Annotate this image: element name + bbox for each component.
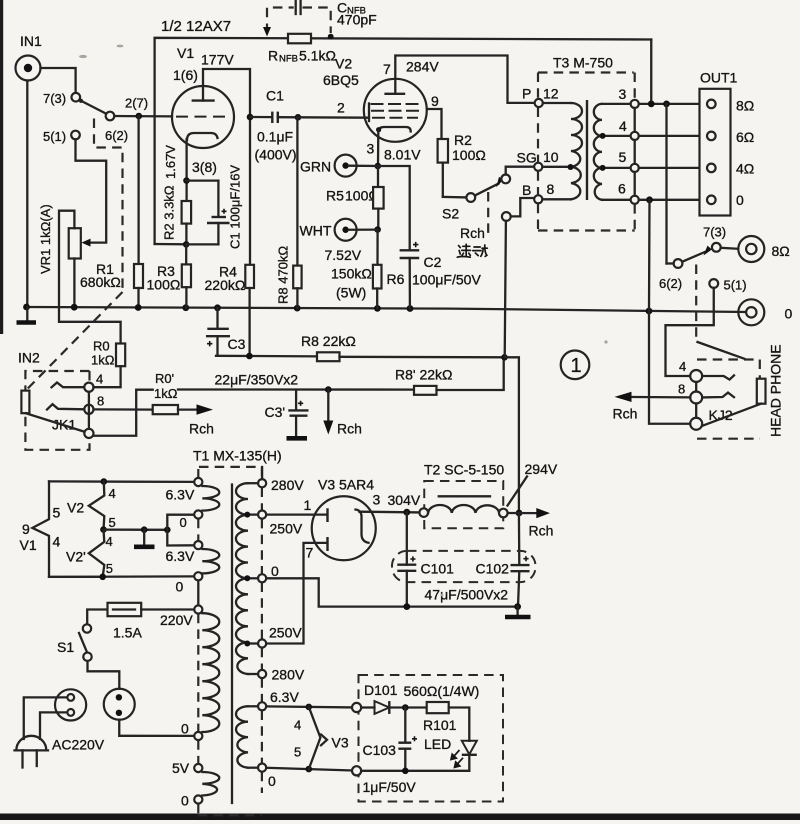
resistor R2 100 (screen) xyxy=(438,132,486,197)
junction R8 ground xyxy=(294,305,301,312)
V1 grid (dashed) xyxy=(176,116,228,118)
jack KJ2 pin 4 xyxy=(679,359,702,382)
svg-text:6.3V: 6.3V xyxy=(270,689,299,705)
svg-text:V2: V2 xyxy=(67,500,84,516)
V2 cathode xyxy=(376,127,411,166)
T1 left winding 5V xyxy=(202,772,219,796)
Rch arrow (R0' output) xyxy=(189,404,214,436)
LED xyxy=(424,736,477,771)
JK1 body contact xyxy=(21,391,29,414)
svg-text:470pF: 470pF xyxy=(337,12,377,28)
svg-text:R8' 22kΩ: R8' 22kΩ xyxy=(395,367,453,383)
svg-text:C3': C3' xyxy=(265,404,286,420)
wire cathode to C2 xyxy=(378,166,410,250)
svg-text:3: 3 xyxy=(373,492,381,508)
headphone dashed box xyxy=(697,360,760,439)
svg-text:1/2 12AX7: 1/2 12AX7 xyxy=(161,18,231,35)
svg-text:V2: V2 xyxy=(335,56,352,72)
node C101 tap xyxy=(403,509,410,516)
svg-text:0.1μF: 0.1μF xyxy=(257,129,293,145)
wire 0 tap down to bus xyxy=(648,200,651,311)
capacitor C3' xyxy=(265,390,309,437)
wire 8ohm down to headphone switch xyxy=(665,104,667,264)
junction R3 ground xyxy=(182,304,189,311)
svg-text:R8 470kΩ: R8 470kΩ xyxy=(276,246,291,304)
svg-text:Rch: Rch xyxy=(189,421,214,437)
svg-text:C3: C3 xyxy=(228,336,246,352)
wire tap3 to OUT1 8ohm xyxy=(639,103,707,105)
switch contact 6(2) xyxy=(105,112,128,143)
potentiometer VR1 1k(A) xyxy=(38,204,81,274)
heater bus bottom xyxy=(49,575,194,578)
diode D101 xyxy=(361,682,427,714)
svg-text:R0: R0 xyxy=(93,339,110,354)
svg-text:9: 9 xyxy=(431,93,439,109)
T1 left terminals xyxy=(194,478,202,804)
svg-text:280V: 280V xyxy=(271,477,304,493)
svg-text:6.3V: 6.3V xyxy=(166,487,195,503)
V3 plate pin 1 xyxy=(266,497,327,522)
wire centre tap to T1 0 bracket xyxy=(104,528,168,531)
JK1 pin 4 xyxy=(84,372,103,392)
T1 right edge dashed segments xyxy=(261,467,263,793)
junction R1 ground xyxy=(135,304,142,311)
resistor RNFB 5.1k xyxy=(268,34,336,65)
svg-text:V3 5AR4: V3 5AR4 xyxy=(318,477,374,493)
wire tap4 to OUT1 6ohm xyxy=(639,135,707,137)
svg-text:HEAD PHONE: HEAD PHONE xyxy=(768,344,784,437)
LED box terminal top xyxy=(352,703,361,712)
capacitor C1 0.1uF coupling xyxy=(250,88,298,163)
wire bus to KJ2 sleeve xyxy=(649,311,690,424)
node C103 tap xyxy=(402,704,409,711)
svg-text:8Ω: 8Ω xyxy=(772,243,790,259)
triode V1 (1/2 12AX7) xyxy=(172,45,234,148)
svg-text:250V: 250V xyxy=(270,521,303,537)
T1 left winding 6.3V a xyxy=(202,486,219,511)
svg-text:S1: S1 xyxy=(57,639,74,655)
fuse 1.5A xyxy=(87,603,194,641)
HV centre tap 0 wire xyxy=(266,578,517,606)
svg-text:304V: 304V xyxy=(388,492,421,508)
resistor R5 100 xyxy=(326,166,384,230)
S2 linkage dashed xyxy=(487,192,489,238)
capacitor C101 xyxy=(397,512,416,606)
JK1 pin connecting stem xyxy=(88,392,90,429)
svg-text:5: 5 xyxy=(106,561,113,576)
svg-text:22μF/350Vx2: 22μF/350Vx2 xyxy=(215,372,299,388)
mains outlet socket xyxy=(104,689,135,720)
svg-text:C2: C2 xyxy=(424,254,442,270)
resistor R8 22k xyxy=(301,333,505,361)
wire VR1 top to R0 xyxy=(59,211,121,344)
T1 HV winding upper xyxy=(236,483,258,578)
T1 right labels xyxy=(268,477,305,789)
svg-text:5: 5 xyxy=(619,149,627,165)
node V3 heater bottom xyxy=(306,766,313,773)
switch S2 xyxy=(442,167,534,358)
headphone linkage dashed xyxy=(695,265,697,342)
heater bus top 6.3V xyxy=(49,480,194,483)
headphone resistor xyxy=(757,379,766,404)
svg-text:294V: 294V xyxy=(525,461,558,477)
svg-text:NFB: NFB xyxy=(279,54,298,65)
Rch arrow (B+) xyxy=(529,508,554,539)
wire node to R3 xyxy=(185,244,187,264)
svg-text:47μF/500Vx2: 47μF/500Vx2 xyxy=(425,587,509,603)
capacitor CNFB 470pF xyxy=(263,0,377,39)
label 150k (5W) xyxy=(331,266,372,301)
svg-text:0: 0 xyxy=(736,192,744,208)
headphone switch 5(1) xyxy=(709,278,746,293)
svg-text:4: 4 xyxy=(96,372,103,387)
wire V2 pin9 to R2 xyxy=(427,109,442,139)
AC plug symbol xyxy=(15,736,49,768)
ground symbol heater xyxy=(134,530,155,547)
node 0 line xyxy=(646,196,653,203)
jack KJ2 pin 8 xyxy=(678,382,702,404)
svg-text:4: 4 xyxy=(109,486,116,501)
wire feedback to cathode node xyxy=(155,243,186,246)
jack JK1 dashed outline xyxy=(25,371,89,450)
wire T1 6.3V to LED box xyxy=(266,706,352,707)
resistor R0' 1k xyxy=(94,371,199,414)
jack KJ2 lever diagonal xyxy=(698,342,745,359)
wire tap5 to OUT1 4ohm xyxy=(639,167,707,169)
svg-text:7: 7 xyxy=(306,545,314,561)
svg-text:5: 5 xyxy=(109,515,116,530)
JK1 sleeve diagonal xyxy=(26,413,85,432)
T1 right terminals xyxy=(258,479,266,772)
scan page border bottom xyxy=(0,814,800,821)
svg-text:100μF/50V: 100μF/50V xyxy=(412,272,481,288)
wire IN1 to switch 7(3) xyxy=(41,68,76,93)
svg-text:4: 4 xyxy=(106,534,113,549)
label 294V with leader xyxy=(508,461,558,506)
choke T2 SC-5-150 xyxy=(419,462,507,529)
svg-text:R2: R2 xyxy=(454,132,472,148)
T3 secondary winding xyxy=(594,104,631,200)
ground symbol C3' xyxy=(287,436,308,441)
svg-text:4Ω: 4Ω xyxy=(736,161,754,177)
svg-text:4: 4 xyxy=(294,718,301,733)
svg-text:T2 SC-5-150: T2 SC-5-150 xyxy=(424,462,504,478)
V1 cathode xyxy=(187,133,218,201)
T1 left labels xyxy=(160,487,195,809)
ground symbol (main bus) xyxy=(17,307,37,323)
junction IN1 ground xyxy=(23,304,30,311)
svg-text:6(2): 6(2) xyxy=(105,128,128,143)
labels C101 C102 xyxy=(421,561,510,577)
svg-text:680kΩ: 680kΩ xyxy=(80,274,121,290)
T1 HV winding lower xyxy=(236,575,258,674)
T3 terminal SG 10 xyxy=(517,149,559,171)
circled figure 1 xyxy=(561,351,590,380)
svg-text:R: R xyxy=(268,48,278,64)
svg-text:IN1: IN1 xyxy=(20,33,42,49)
JK1 contact lever 4 xyxy=(52,383,85,388)
svg-text:1μF/50V: 1μF/50V xyxy=(363,779,417,795)
node R8/R8' junction xyxy=(501,354,508,361)
svg-text:6.3V: 6.3V xyxy=(166,548,195,564)
svg-text:220V: 220V xyxy=(160,612,193,628)
T3 dashed box xyxy=(538,73,635,231)
wire junction to B+ node xyxy=(505,357,519,513)
KJ2 contact 8 xyxy=(702,393,734,398)
Rch arrow (to right channel, down) xyxy=(323,390,362,437)
svg-text:7: 7 xyxy=(383,61,391,77)
svg-text:1.5A: 1.5A xyxy=(113,625,142,641)
V2 plate xyxy=(384,56,534,103)
svg-text:S2: S2 xyxy=(442,206,459,222)
label pin 3 and 304V xyxy=(373,492,421,509)
svg-text:V1: V1 xyxy=(177,45,194,61)
resistor R8 470k xyxy=(276,117,302,308)
svg-text:150kΩ: 150kΩ xyxy=(331,266,372,282)
resistor R6 xyxy=(373,230,405,309)
svg-text:2(7): 2(7) xyxy=(125,96,148,111)
svg-text:8: 8 xyxy=(547,181,555,197)
switch contact 5(1) xyxy=(43,129,80,144)
resistor R101 560 xyxy=(404,683,480,741)
wire R8' line xyxy=(178,388,414,390)
label linked (Chinese) xyxy=(457,244,487,257)
svg-text:Rch: Rch xyxy=(460,225,485,241)
svg-text:560Ω(1/4W): 560Ω(1/4W) xyxy=(404,683,480,699)
T1 dashed box bottom xyxy=(198,814,262,816)
svg-text:8: 8 xyxy=(678,382,685,397)
LED indicator dashed box xyxy=(359,675,504,802)
V3 plate pin 7 xyxy=(266,537,327,644)
C101/C102 dashed rounded box xyxy=(392,551,536,582)
svg-text:5.1kΩ: 5.1kΩ xyxy=(299,48,336,64)
node R4 bottom xyxy=(246,353,253,360)
node ground tap xyxy=(141,526,148,533)
node V1 cathode xyxy=(183,177,190,184)
feedback wire (top line) xyxy=(155,38,652,244)
node plate of V1 xyxy=(247,114,254,121)
svg-text:C1 100μF/16V: C1 100μF/16V xyxy=(228,165,243,249)
svg-text:100Ω: 100Ω xyxy=(147,277,181,293)
wire plug lower xyxy=(40,712,67,739)
svg-text:R8 22kΩ: R8 22kΩ xyxy=(301,333,356,349)
wire B+ node down through C102 xyxy=(518,513,521,565)
ganged-switch dashed linkage xyxy=(26,119,122,391)
LED box terminal bottom xyxy=(352,766,361,775)
wire JK1 sleeve to R8' line xyxy=(94,390,153,436)
svg-text:8Ω: 8Ω xyxy=(736,98,754,114)
svg-text:Rch: Rch xyxy=(337,421,362,437)
svg-text:9: 9 xyxy=(22,521,30,537)
Rch arrow (headphone) xyxy=(613,392,691,422)
svg-text:5: 5 xyxy=(294,745,301,760)
capacitor C103 xyxy=(363,708,418,771)
test jack GRN xyxy=(300,155,378,177)
scan page border left xyxy=(0,0,3,334)
svg-text:(5W): (5W) xyxy=(336,285,366,301)
svg-text:0: 0 xyxy=(785,306,793,322)
node Rch tap xyxy=(325,386,332,393)
ground symbol B supply xyxy=(505,607,531,617)
capacitor C1 100uF/16V (cathode bypass) xyxy=(186,165,242,249)
wire VR1 bottom to ground bus xyxy=(73,259,75,308)
headphone switch lever xyxy=(682,246,712,262)
svg-text:LED: LED xyxy=(424,736,451,752)
jack KJ2 sleeve xyxy=(690,418,702,430)
wire feedback down to 8ohm tap xyxy=(650,40,652,104)
svg-text:6(2): 6(2) xyxy=(659,276,682,291)
junction R6 ground xyxy=(374,305,381,312)
svg-text:5: 5 xyxy=(53,505,61,521)
T1 6.3V winding (V3) xyxy=(236,706,258,767)
svg-text:6: 6 xyxy=(618,181,626,197)
svg-text:12: 12 xyxy=(543,86,559,102)
T1 left edge dashed segments xyxy=(197,469,199,815)
svg-text:10: 10 xyxy=(543,149,559,165)
svg-text:6Ω: 6Ω xyxy=(736,129,754,145)
JK1 sleeve pin xyxy=(84,429,93,438)
T1 left winding 220V xyxy=(202,613,219,732)
mains plug connector xyxy=(55,689,86,720)
wire 5(1) to KJ2 pin 4 xyxy=(666,288,714,376)
T1 0-terminal bracket xyxy=(167,515,194,546)
scan speckles xyxy=(79,45,608,597)
resistor R1 680k xyxy=(80,116,143,308)
svg-text:SG: SG xyxy=(517,150,537,166)
svg-text:R101: R101 xyxy=(423,717,457,733)
svg-text:T3 M-750: T3 M-750 xyxy=(553,55,613,71)
svg-text:7.52V: 7.52V xyxy=(325,247,362,263)
svg-text:2: 2 xyxy=(337,100,345,116)
wire IN1 down to bus xyxy=(26,81,28,308)
KJ2 contact 4 xyxy=(702,375,734,379)
svg-text:100Ω: 100Ω xyxy=(452,147,486,163)
node heater centre tap xyxy=(100,526,107,533)
V2 grids (dashed) xyxy=(369,104,419,122)
heater V2' xyxy=(66,530,113,581)
V1 plate xyxy=(192,69,250,117)
node V2 cathode xyxy=(375,163,382,170)
phone jack 0 xyxy=(738,299,792,325)
switch lever S (input select) xyxy=(79,99,106,114)
resistor R8' 22k xyxy=(395,357,504,395)
svg-text:177V: 177V xyxy=(201,52,234,68)
wire tap6 to OUT1 0 xyxy=(639,199,707,201)
rectifier V3 5AR4 xyxy=(312,477,376,561)
capacitor C102 xyxy=(511,556,530,607)
junction C2 ground xyxy=(407,305,414,312)
wire plug upper xyxy=(24,697,68,739)
node B+ choke output xyxy=(516,510,523,517)
svg-text:0: 0 xyxy=(176,579,184,595)
svg-text:Rch: Rch xyxy=(529,523,554,539)
V3 filament xyxy=(356,510,369,543)
resistor R3 100 xyxy=(147,263,192,308)
headphone switch 6(2) xyxy=(659,259,682,291)
svg-text:AC220V: AC220V xyxy=(52,737,105,753)
svg-text:C101: C101 xyxy=(421,561,455,577)
svg-text:1: 1 xyxy=(304,497,312,513)
svg-text:3: 3 xyxy=(367,141,375,157)
wire choke to node xyxy=(508,512,537,514)
svg-text:7(3): 7(3) xyxy=(43,91,66,106)
T3 secondary tap circles 3,4,5,6 xyxy=(618,86,639,204)
junction T3 secondary 0 to bus xyxy=(646,308,653,315)
svg-text:4: 4 xyxy=(679,359,686,374)
svg-text:0: 0 xyxy=(180,515,187,530)
svg-text:T1 MX-135(H): T1 MX-135(H) xyxy=(193,448,282,464)
svg-text:1kΩ: 1kΩ xyxy=(154,386,178,401)
svg-text:OUT1: OUT1 xyxy=(700,70,738,86)
svg-text:IN2: IN2 xyxy=(18,350,40,366)
svg-text:6BQ5: 6BQ5 xyxy=(323,72,359,88)
resistor R2 3.3k xyxy=(162,185,192,244)
svg-text:280V: 280V xyxy=(272,667,305,683)
heater bracket V1 pin9 xyxy=(32,481,102,577)
svg-text:0: 0 xyxy=(268,773,276,789)
T3 core xyxy=(586,100,588,200)
svg-text:8.01V: 8.01V xyxy=(384,147,421,163)
input jack IN1 xyxy=(16,33,43,81)
svg-text:C102: C102 xyxy=(476,561,510,577)
svg-text:7(3): 7(3) xyxy=(703,225,726,240)
headphone switch 7(3) xyxy=(703,225,738,252)
terminal strip OUT1 xyxy=(700,70,738,216)
OUT1 labels xyxy=(736,98,754,209)
svg-text:4: 4 xyxy=(619,118,627,134)
LED box bottom wire xyxy=(361,770,469,772)
capacitor C2 100uF/50V xyxy=(400,242,482,309)
svg-text:1.67V: 1.67V xyxy=(163,145,178,179)
svg-text:D101: D101 xyxy=(364,682,398,698)
KJ2 stem xyxy=(695,382,697,418)
svg-text:1: 1 xyxy=(571,355,582,377)
svg-text:GRN: GRN xyxy=(300,159,331,175)
JK1 pin 8 xyxy=(84,394,104,414)
node C101 ground xyxy=(403,603,410,610)
T1 core xyxy=(231,485,233,804)
svg-text:B: B xyxy=(522,182,531,198)
svg-text:5(1): 5(1) xyxy=(43,129,66,144)
node R5 bottom xyxy=(374,226,381,233)
svg-text:1(6): 1(6) xyxy=(173,67,198,83)
svg-text:C103: C103 xyxy=(363,742,397,758)
svg-text:C1: C1 xyxy=(266,88,284,104)
wire T1 0 to LED box xyxy=(266,768,352,771)
svg-text:Rch: Rch xyxy=(613,406,638,422)
svg-text:R2 3.3kΩ: R2 3.3kΩ xyxy=(162,185,177,240)
heater V2 xyxy=(67,478,116,530)
svg-text:3: 3 xyxy=(619,86,627,102)
node C1 output xyxy=(295,114,302,121)
switch S1 xyxy=(57,624,92,661)
T1 left winding 6.3V b xyxy=(202,549,219,573)
svg-text:R5: R5 xyxy=(326,188,344,204)
svg-text:8: 8 xyxy=(97,394,104,409)
T3 terminal B 8 xyxy=(522,181,555,203)
node 2(7) xyxy=(125,96,148,120)
svg-text:V1: V1 xyxy=(20,537,37,553)
junction VR1 ground xyxy=(71,304,78,311)
wire V3 cathode to T2 xyxy=(360,511,420,514)
labels 9 V1 5 4 xyxy=(20,505,61,554)
svg-text:250V: 250V xyxy=(269,625,302,641)
wire S1 to outlet xyxy=(88,661,120,689)
resistor R0 1k xyxy=(91,339,125,388)
T1 280V stub xyxy=(261,467,263,479)
svg-text:R6: R6 xyxy=(387,271,405,287)
pentode V2 6BQ5 xyxy=(323,56,427,142)
